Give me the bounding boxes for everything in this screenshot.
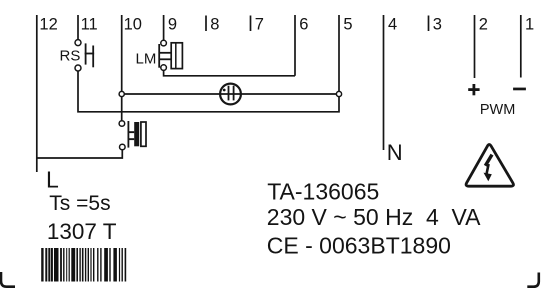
svg-text:5: 5: [343, 15, 352, 33]
motor M: [220, 84, 241, 105]
wire LM to terminal 6: [164, 70, 295, 75]
switch LM contacts: [161, 40, 167, 70]
svg-text:10: 10: [124, 15, 142, 33]
svg-text:4: 4: [388, 15, 397, 33]
svg-text:12: 12: [39, 15, 57, 33]
svg-text:2: 2: [479, 15, 488, 33]
terminal 10: [122, 15, 142, 121]
thermal switch actuator: [128, 121, 140, 148]
wire L row: [37, 150, 123, 158]
terminal 3: [429, 15, 442, 33]
terminal 9: [164, 15, 177, 40]
terminal 2: [475, 15, 488, 78]
barcode: [41, 248, 126, 282]
svg-text:RS: RS: [60, 48, 81, 65]
svg-text:LM: LM: [136, 51, 157, 68]
switch RS actuator: [85, 43, 94, 67]
svg-text:Ts =5s: Ts =5s: [49, 192, 110, 215]
wire motor row: [122, 93, 339, 95]
switch RS contacts: [75, 40, 81, 71]
svg-text:CE - 0063BT1890: CE - 0063BT1890: [267, 233, 451, 259]
svg-text:N: N: [387, 140, 403, 165]
terminal 8: [206, 15, 219, 33]
label plus: [468, 84, 479, 95]
terminal 6: [295, 15, 308, 76]
svg-text:9: 9: [168, 15, 177, 33]
terminal 5: [339, 15, 353, 92]
svg-text:3: 3: [433, 15, 442, 33]
svg-text:8: 8: [210, 15, 219, 33]
svg-text:TA-136065: TA-136065: [267, 178, 379, 204]
svg-text:230 V ~ 50 Hz 4 VA: 230 V ~ 50 Hz 4 VA: [267, 204, 481, 230]
svg-text:7: 7: [255, 15, 264, 33]
border corner bottom-left: [1, 272, 15, 287]
terminal 12: [37, 15, 58, 172]
svg-text:1: 1: [525, 15, 534, 33]
svg-text:1307 T: 1307 T: [47, 219, 117, 244]
terminal 4: [384, 15, 398, 150]
thermal switch contacts: [119, 121, 125, 150]
terminal 7: [251, 15, 264, 33]
svg-text:PWM: PWM: [480, 102, 515, 118]
svg-text:L: L: [46, 166, 59, 192]
terminal 11: [78, 15, 98, 40]
warning triangle: [466, 145, 513, 187]
node junction left: [119, 91, 124, 96]
node junction right: [336, 91, 341, 96]
svg-text:11: 11: [81, 15, 98, 33]
label minus: [513, 88, 526, 91]
terminal 1: [521, 15, 534, 78]
border corner bottom-right: [527, 273, 539, 287]
wire RS to terminal 5 bottom row: [78, 71, 339, 112]
switch LM actuator: [158, 44, 171, 68]
svg-text:6: 6: [299, 15, 308, 33]
